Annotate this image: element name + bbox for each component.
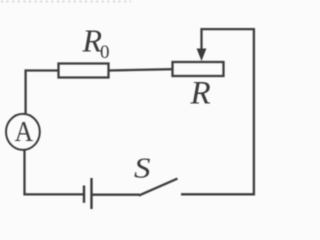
rheostat R body — [173, 62, 224, 76]
resistor R0 — [59, 64, 109, 78]
ammeter A — [6, 114, 40, 150]
wire: top-right horizontal, right vertical, bottom-right to switch contact — [181, 29, 254, 194]
battery long plate (+) — [90, 178, 92, 209]
wire: between R0 and rheostat R — [109, 69, 173, 70]
wire: bottom-left from battery to left vertical — [25, 150, 84, 195]
dotted leader line (cropped text above) — [1, 1, 131, 3]
wire: top-left horizontal and left vertical down to ammeter — [26, 71, 59, 115]
wire: battery to switch hinge — [93, 194, 140, 196]
svg-text:A: A — [15, 116, 34, 148]
switch S blade — [139, 179, 178, 196]
svg-text:R: R — [190, 76, 211, 112]
battery short plate (-) — [83, 186, 85, 203]
rheostat wiper arrow — [200, 28, 202, 50]
svg-text:0: 0 — [100, 42, 110, 63]
svg-text:S: S — [134, 153, 151, 185]
